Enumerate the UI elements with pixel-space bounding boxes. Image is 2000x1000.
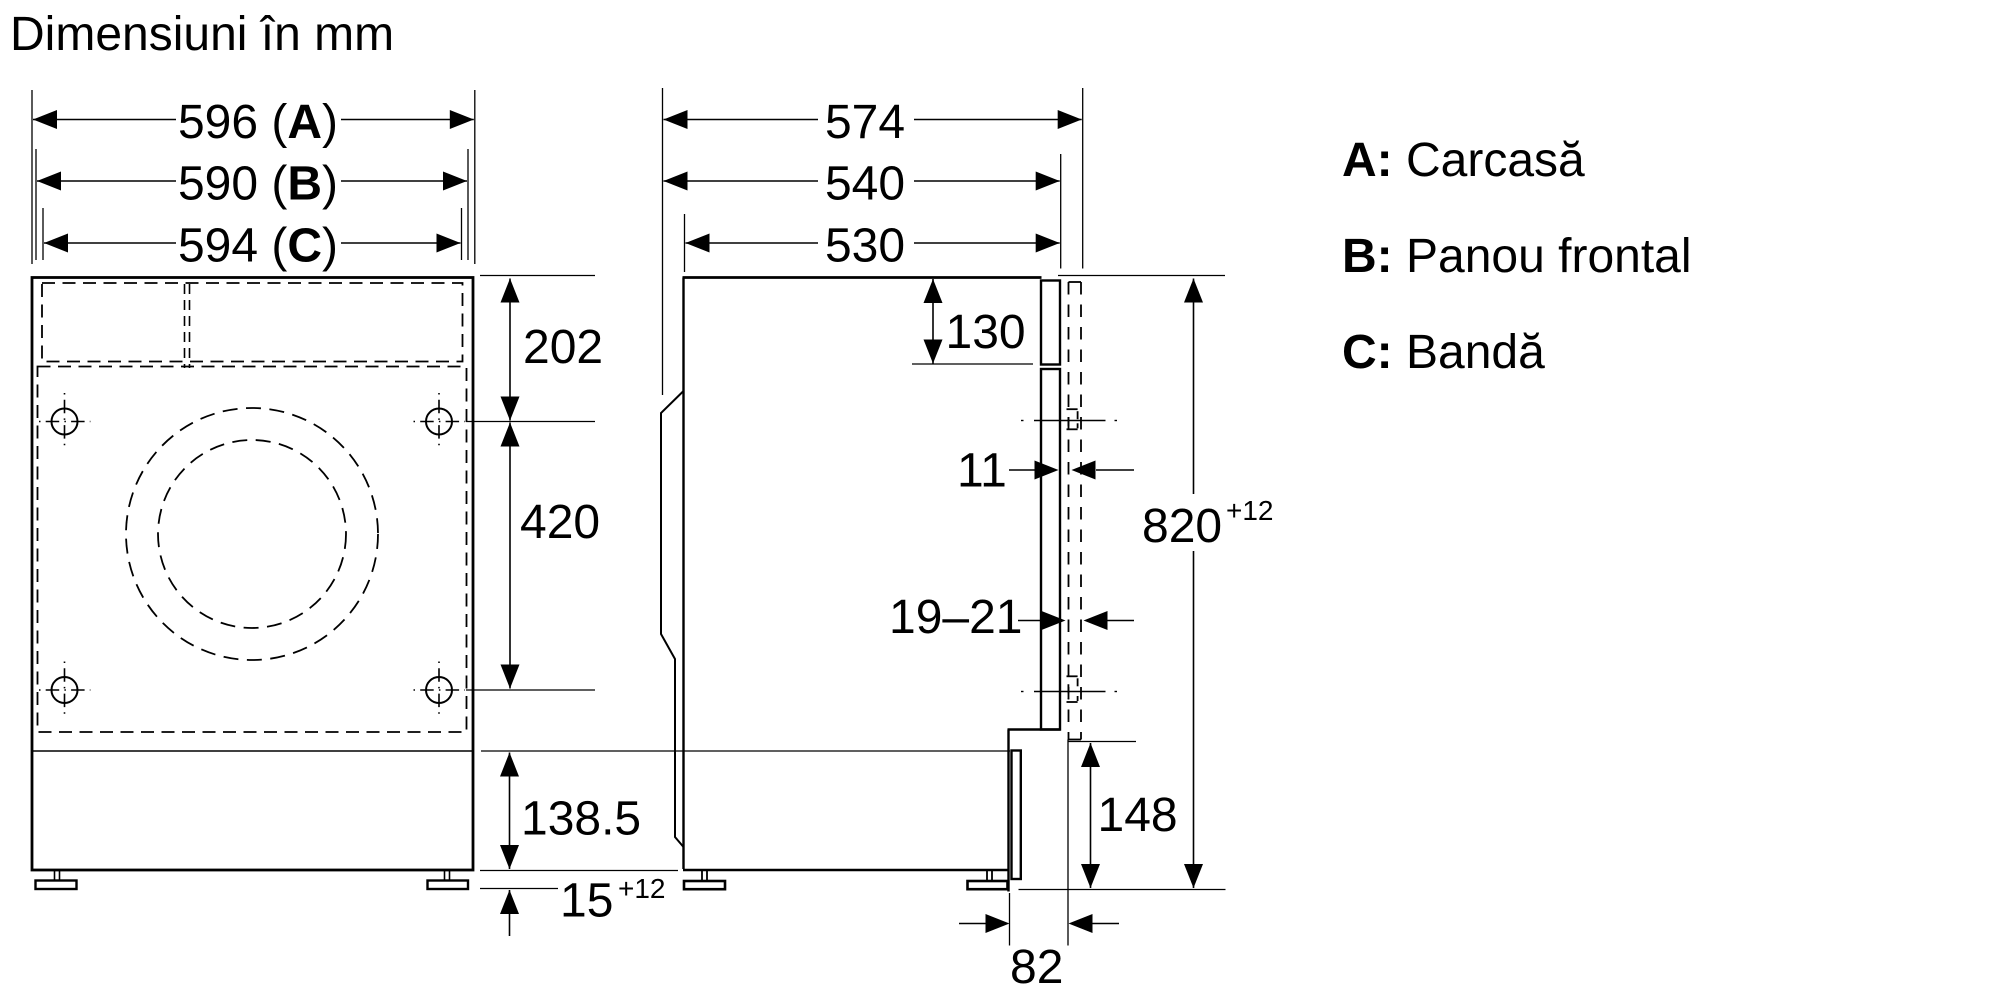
svg-text:530: 530 (825, 220, 905, 273)
svg-text:130: 130 (946, 306, 1026, 359)
svg-text:574: 574 (825, 96, 905, 149)
svg-text:A: Carcasă: A: Carcasă (1342, 134, 1585, 187)
svg-text:590 (B): 590 (B) (178, 158, 338, 211)
svg-text:19–21: 19–21 (889, 591, 1022, 644)
svg-text:202: 202 (523, 321, 603, 374)
svg-text:596 (A): 596 (A) (178, 96, 338, 149)
svg-text:148: 148 (1098, 789, 1178, 842)
svg-text:Dimensiuni în mm: Dimensiuni în mm (10, 8, 394, 61)
svg-text:540: 540 (825, 158, 905, 211)
svg-text:+12: +12 (618, 873, 666, 904)
svg-text:420: 420 (520, 496, 600, 549)
svg-text:C: Bandă: C: Bandă (1342, 326, 1545, 379)
svg-text:B: Panou frontal: B: Panou frontal (1342, 230, 1692, 283)
svg-text:820: 820 (1142, 500, 1222, 553)
svg-text:594 (C): 594 (C) (178, 220, 338, 273)
svg-text:138.5: 138.5 (521, 793, 641, 846)
svg-text:15: 15 (560, 875, 613, 928)
svg-text:+12: +12 (1226, 495, 1274, 526)
svg-text:11: 11 (957, 445, 1007, 498)
svg-text:82: 82 (1010, 941, 1063, 994)
